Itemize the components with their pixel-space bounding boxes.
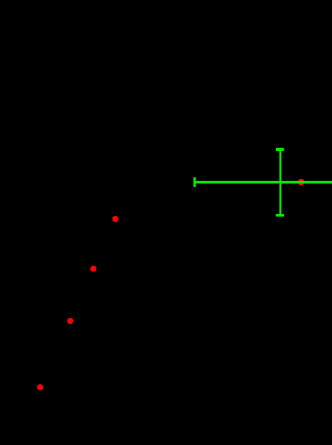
data point P4: [37, 384, 43, 390]
error bar left cap: [193, 177, 195, 187]
data point P2: [90, 266, 96, 272]
error bar vertical line: [279, 149, 281, 215]
error bar top cap: [276, 148, 284, 151]
data point P5 (on error bar): [298, 179, 305, 186]
error bar bottom cap: [276, 214, 284, 217]
error bar horizontal line: [194, 181, 332, 184]
data point P1: [112, 216, 118, 222]
data point P3: [67, 318, 73, 324]
